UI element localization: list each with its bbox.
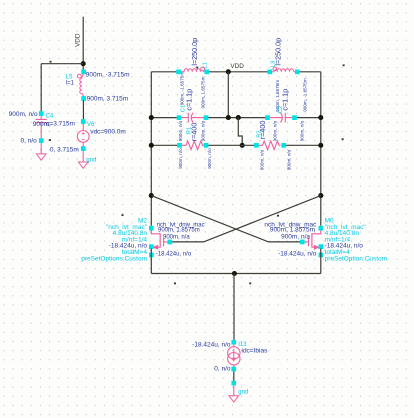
- wire diagonal left-top to right gate: [151, 196, 300, 242]
- M2 annotation text: [156, 222, 205, 257]
- junction right rail cross: [318, 193, 323, 198]
- node junction at VDD tap: [81, 61, 86, 66]
- inductor L3: [268, 38, 308, 112]
- svg-text:900m, -1.6575m: 900m, -1.6575m: [303, 78, 308, 112]
- junction cap row VDD column: [226, 115, 231, 120]
- svg-text:L1: L1: [202, 62, 208, 68]
- resistor R2: [254, 121, 292, 171]
- wire tail to current source: [233, 274, 235, 340]
- svg-text:gnd: gnd: [238, 390, 248, 396]
- capacitor C4: [9, 111, 75, 144]
- svg-text:900m, n/a: 900m, n/a: [281, 233, 310, 240]
- M0 instance label block: [325, 218, 388, 263]
- M2 instance label block: [81, 218, 147, 263]
- junction resistor row right rail: [318, 143, 323, 148]
- bottom wire: [151, 273, 320, 275]
- inductor L5: [66, 70, 130, 103]
- wire diagonal right-top to left gate: [172, 196, 321, 242]
- wire VDD column: [227, 72, 229, 118]
- resistor R1: [177, 123, 212, 169]
- svg-text:preSetOption:Custom: preSetOption:Custom: [325, 255, 388, 262]
- tank top wire: [151, 71, 320, 73]
- junction bottom center: [232, 271, 237, 276]
- svg-text:c=1.1p: c=1.1p: [281, 89, 290, 111]
- wire current source to gnd: [233, 372, 235, 382]
- junction VDD top: [226, 69, 231, 74]
- marker dot near C4: [49, 139, 51, 141]
- svg-text:900m, n/o: 900m, n/o: [259, 149, 264, 170]
- ground bottom: [229, 381, 248, 402]
- svg-text:VDD: VDD: [75, 33, 82, 47]
- junction jog resistor row: [240, 143, 245, 148]
- capacitor C2: [265, 89, 305, 141]
- marker dots: [122, 214, 124, 216]
- svg-text:preSetOptions:Custom: preSetOptions:Custom: [81, 255, 147, 262]
- junction cap row jog: [236, 115, 241, 120]
- svg-text:c=3.715m: c=3.715m: [46, 120, 75, 127]
- svg-text:VDD: VDD: [230, 63, 244, 70]
- wire down to capacitor C4: [40, 64, 42, 112]
- svg-text:900m, -3.715m: 900m, -3.715m: [86, 71, 130, 78]
- wire VDD vertical top-left: [82, 17, 84, 70]
- svg-text:r=400: r=400: [189, 123, 198, 142]
- svg-text:900m, 1.6575m: 900m, 1.6575m: [200, 76, 205, 108]
- marker dot left of VDD junction: [50, 61, 52, 63]
- svg-text:0, n/o: 0, n/o: [21, 137, 38, 144]
- svg-text:V6: V6: [87, 122, 95, 128]
- svg-text:-18.424u, n/o: -18.424u, n/o: [278, 250, 317, 257]
- capacitor C1: [177, 89, 209, 141]
- transistor M0: [300, 226, 323, 258]
- svg-text:-18.424u, n/o: -18.424u, n/o: [156, 251, 192, 257]
- svg-text:0, 3.715m: 0, 3.715m: [50, 146, 79, 153]
- svg-text:900m, 3.715m: 900m, 3.715m: [87, 95, 129, 102]
- M0 annotation text: [264, 221, 317, 257]
- svg-text:C4: C4: [46, 113, 54, 119]
- svg-text:l=1: l=1: [66, 81, 75, 87]
- svg-text:l=250.0p: l=250.0p: [190, 38, 199, 66]
- junction cap row right rail: [318, 115, 323, 120]
- wire left source down: [150, 249, 152, 274]
- svg-text:900m, n/a: 900m, n/a: [163, 234, 190, 240]
- svg-text:900m, n/o: 900m, n/o: [207, 148, 212, 169]
- svg-text:gnd: gnd: [86, 157, 96, 163]
- wire jog VDD to resistor row: [238, 118, 242, 146]
- svg-text:900m, n/o: 900m, n/o: [9, 111, 38, 118]
- svg-text:900m, n/o: 900m, n/o: [200, 120, 205, 141]
- svg-text:900m, n/o: 900m, n/o: [287, 149, 292, 170]
- current source I13: [192, 340, 268, 373]
- svg-text:L5: L5: [66, 74, 73, 80]
- svg-text:0, n/o: 0, n/o: [214, 366, 231, 373]
- junction left rail cross: [149, 193, 154, 198]
- wire right source down: [320, 249, 322, 274]
- left rail wire: [150, 72, 152, 226]
- svg-text:vdc=900.0m: vdc=900.0m: [90, 129, 126, 136]
- junction resistor row left rail: [149, 143, 154, 148]
- svg-text:900m, -1.6575m: 900m, -1.6575m: [179, 72, 184, 106]
- svg-text:idc=Ibias: idc=Ibias: [242, 347, 269, 354]
- ground under V6: [78, 151, 96, 168]
- svg-text:900m, n/o: 900m, n/o: [178, 120, 183, 141]
- svg-text:900m, n/o: 900m, n/o: [178, 148, 183, 169]
- svg-text:900m, 1.8575m: 900m, 1.8575m: [158, 228, 200, 234]
- svg-text:c=1.1p: c=1.1p: [185, 89, 194, 111]
- wire to left branch: [41, 63, 83, 65]
- resistor row wire: [151, 144, 320, 146]
- cap row wire: [151, 117, 320, 119]
- junction cap row left rail: [149, 115, 154, 120]
- wire L5 to V6: [82, 100, 84, 119]
- right rail wire: [320, 72, 322, 226]
- ground under C4: [36, 143, 46, 160]
- svg-text:900m, n/o: 900m, n/o: [300, 120, 305, 141]
- inductor L1: [176, 38, 209, 109]
- voltage source V6: [50, 119, 126, 153]
- svg-text:900m, n/o: 900m, n/o: [273, 120, 278, 141]
- svg-text:l=250.0p: l=250.0p: [274, 38, 283, 66]
- svg-text:r=400: r=400: [258, 121, 267, 140]
- transistor M2: [149, 226, 172, 258]
- svg-text:-18.424u, n/o: -18.424u, n/o: [192, 342, 231, 349]
